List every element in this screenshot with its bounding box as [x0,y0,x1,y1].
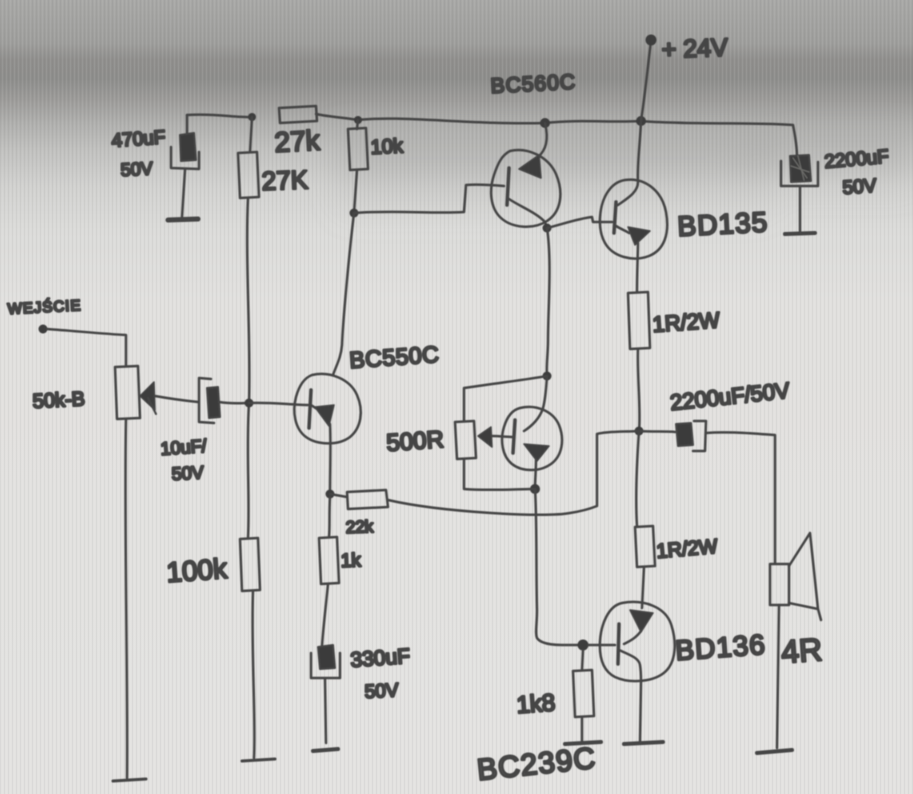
svg-text:BC560C: BC560C [490,71,576,98]
label +24V [661,34,728,64]
wire +24V feed [641,41,651,121]
wire R2 down to node A [247,198,249,403]
svg-text:50k-B: 50k-B [32,388,85,413]
svg-text:1R/2W: 1R/2W [652,307,721,337]
resistor R3 10k vertical [348,128,368,170]
wire node F to Q5 base [588,644,615,647]
ground of R7 [565,742,601,744]
label BC560C [490,71,576,98]
resistor R1 27k horizontal [279,106,317,123]
svg-text:BD136: BD136 [674,629,767,666]
transistor Q5 collector [619,650,641,742]
speaker LS1 frame [770,564,789,605]
svg-text:27k: 27k [274,125,322,158]
label 22k of R5 [345,517,374,537]
label 100k of R8 [165,553,229,588]
transistor Q3 base bar [309,390,311,428]
transistor Q3 emitter with arrow [311,405,334,494]
node J4 junction +24V [636,116,646,126]
node J2 junction 10k top [354,116,362,124]
resistor R4 1R/2W upper [628,292,650,349]
label BC239C [475,742,597,787]
ground of Q5 collector [624,742,663,744]
capacitor C4 330uF body plate [318,645,335,669]
node OUT junction [635,427,644,436]
wire C3 to node A [219,402,249,403]
capacitor C5 2200uF output body plate [676,423,693,446]
transistor Q1 collector [509,199,547,228]
node input terminal [39,325,48,334]
label 1R/2W of R4 [652,307,721,337]
svg-text:500R: 500R [386,426,445,457]
capacitor C2 cup plate [781,161,818,186]
transistor Q2 base bar [614,202,616,233]
svg-text:27K: 27K [261,164,309,196]
transistor Q4 BC239C body [502,407,562,470]
label 27K of R2 [261,164,309,196]
wire node B to BC560C base [354,185,504,213]
transistor Q3 collector to node B [333,213,354,375]
speaker LS1 cone [789,533,821,620]
svg-text:22k: 22k [345,517,374,537]
transistor Q1 base bar [507,168,509,205]
wire feedback R5 to output node [388,431,639,515]
transistor Q3 BC550C body [294,374,360,443]
wire R9 to Q5 emitter [642,567,644,608]
transistor Q1 BC560C body [491,150,560,227]
label 27k of R1 [274,125,322,158]
transistor Q4 collector from J7 [524,376,547,431]
wire R6 to C4 [322,584,328,646]
label BD135 [677,206,769,242]
label 10uF/ of C3 [160,436,207,459]
wire output node to R9 [636,431,639,526]
wire node A to Q3 base [249,403,308,405]
svg-text:470uF: 470uF [111,127,166,152]
wire P2 bottom to J10 [464,459,535,490]
label WEJSCIE input [7,296,82,318]
transistor Q5 BD136 body [600,602,675,681]
node J3 junction BC560C emitter [540,118,550,128]
svg-text:330uF: 330uF [350,645,411,672]
capacitor C1 470uF body plate [180,133,196,161]
transistor Q2 emitter with arrow [616,226,650,292]
capacitor C2 lower lead [799,187,802,231]
label 50V of C3 [171,462,204,484]
node J6 junction Q1 collector [543,224,552,233]
resistor R8 100k vertical [240,538,260,591]
capacitor C2 2200uF top right body plate [790,155,811,182]
label 2200uF/50V of C5 [669,378,791,415]
label 500R of P2 [386,426,445,457]
svg-text:50V: 50V [364,680,399,703]
wire J2 to R3 [357,120,358,129]
potentiometer P2 500R body [455,421,476,459]
node F junction Q5 base [578,640,589,651]
wire J10 down to node F [535,489,578,645]
svg-text:50V: 50V [120,158,153,180]
label 50V of C4 [364,680,399,703]
node B junction 10k bottom [350,209,359,218]
label 50V of C1 [120,158,153,180]
wire potentiometer bottom to bottom tick [125,419,127,778]
svg-text:10k: 10k [370,135,404,159]
ground of speaker [757,750,792,753]
transistor Q1 emitter with arrow [519,123,547,178]
capacitor C4 cup plate [311,653,340,678]
transistor Q4 emitter with arrow [524,444,549,488]
capacitor C1 470uF cup plate [171,147,199,169]
wire node F to R7 1k8 [582,650,583,670]
wire output node to C5 [639,431,675,432]
label 1k of R6 [340,550,361,572]
wire J6 down to node J7 [547,228,550,376]
label 50k-B [32,388,85,413]
svg-text:BD135: BD135 [677,206,769,242]
svg-text:100k: 100k [165,553,229,588]
label 4R of speaker [780,631,823,670]
label 330uF of C4 [350,645,411,672]
svg-text:+ 24V: + 24V [661,34,728,64]
wire C5 to speaker [706,432,775,563]
transistor Q5 base bar [618,624,619,664]
wire wiper to C3 [155,396,198,402]
transistor Q5 emitter arrow [624,610,653,644]
wire node E down to R6 1k [329,497,330,537]
wire R8 to bottom tick [253,591,255,758]
ground of C1 [168,219,198,220]
svg-text:50V: 50V [171,462,204,484]
svg-text:10uF/: 10uF/ [160,436,207,459]
resistor R2 27K vertical [238,152,259,198]
svg-text:50V: 50V [842,176,878,199]
label 1k8 of R7 [516,689,556,719]
label BD136 [674,629,767,666]
label 10k of R3 [370,135,404,159]
node J7 junction Q4 collector [543,372,552,381]
svg-text:4R: 4R [780,631,823,670]
transistor Q4 base bar [513,420,515,453]
node E junction Q3 emitter [326,490,335,499]
transistor Q2 collector from rail [618,121,641,205]
node J10 junction Q4 emitter [530,484,540,494]
resistor R9 1R/2W lower [635,526,655,567]
ground tick of potentiometer [113,779,146,781]
node +24V terminal dot [646,35,657,46]
label 1R/2W of R9 [656,536,719,563]
wire J6 to Q2 base [547,217,612,228]
potentiometer P1 wiper arrow [140,382,156,414]
capacitor C1 470uF lower lead [182,170,185,217]
capacitor C1 470uF lead [186,115,189,134]
resistor R5 22k horizontal [347,490,388,509]
wire J1 to R2 [250,117,252,152]
label BC550C [349,341,441,373]
resistor R7 1k8 vertical [573,670,594,717]
transistor Q2 BD135 body [600,180,667,259]
label 2200uF of C2 [824,146,890,173]
potentiometer P1 50k-B body [115,366,140,419]
label 470uF [111,127,166,152]
wire R3 to node B [354,170,357,213]
resistor R6 1k vertical [319,537,339,584]
wire R4 to output node [638,349,640,431]
svg-text:1k: 1k [340,550,361,572]
ground of C4 [313,749,338,751]
node J1 junction top-left [248,113,256,121]
ground tick of R8 [242,759,275,761]
ground of C2 [785,233,815,234]
capacitor C3 10uF bracket plate [199,378,214,423]
wire P2 wiper to Q4 base [492,436,513,437]
wire node E to R5 22k [330,494,347,497]
node A junction base of Q3 [245,399,254,408]
potentiometer P2 wiper arrow [478,427,492,447]
wire input to potentiometer [47,329,126,366]
wire speaker to ground [777,605,779,748]
wire P2 top to J7 [464,376,547,421]
svg-text:1k8: 1k8 [516,689,556,719]
capacitor C3 10uF body plate [207,387,220,418]
wire R7 to ground [581,717,584,741]
wire top supply rail [187,114,797,157]
wire C4 to ground [325,679,326,743]
wire node A down to R8 100k [248,403,249,538]
capacitor C5 bracket plate [693,421,706,451]
label 50V of C2 [842,176,878,199]
